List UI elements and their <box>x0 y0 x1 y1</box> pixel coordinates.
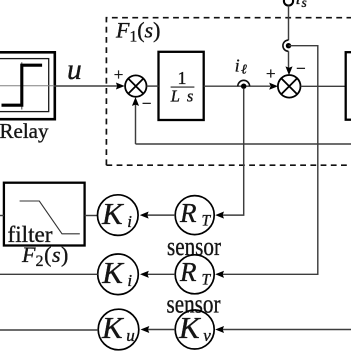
wire left stub into filter <box>0 215 4 217</box>
svg-text:+: + <box>266 64 276 83</box>
wire Ku to left edge <box>0 329 98 331</box>
arrowhead into summer S2 <box>269 83 278 90</box>
terminal i_s <box>284 0 293 6</box>
filter block <box>4 183 85 246</box>
relay block outer border <box>0 52 55 119</box>
wire Ki2 to left edge <box>0 273 98 275</box>
svg-text:L s: L s <box>170 87 194 106</box>
relay axis line <box>0 85 54 87</box>
gain Kv row3 <box>175 310 214 349</box>
wire u <box>54 85 118 87</box>
node i_l hop arc <box>238 80 250 86</box>
right partial block <box>346 52 351 120</box>
arrowhead into S1 bottom <box>132 97 139 106</box>
node i_s hop arc <box>283 40 289 51</box>
relay block inner border <box>0 59 49 112</box>
wire i_s down <box>288 6 290 41</box>
block 1/(Ls) <box>159 52 204 120</box>
svg-text:is: is <box>296 0 307 10</box>
svg-text:Ki: Ki <box>101 196 132 231</box>
arrowhead into RT2 <box>215 271 224 278</box>
svg-text:−: − <box>142 94 152 113</box>
arrowhead into Kv <box>215 326 224 333</box>
svg-text:iℓ: iℓ <box>235 56 247 77</box>
relay step curve <box>2 65 43 105</box>
wire block to S2 <box>204 85 270 87</box>
node i_s junction dot <box>286 43 291 48</box>
svg-text:RT: RT <box>179 198 212 230</box>
sensor RT row1 <box>175 196 214 235</box>
feedback wire vertical up to S1 <box>135 104 137 144</box>
arrowhead into RT1 <box>215 212 224 219</box>
arrowhead into S2 top <box>285 66 292 75</box>
gain Ki row1 <box>98 195 139 236</box>
wire i_l down to RT1 <box>223 89 244 215</box>
svg-text:RT: RT <box>179 257 212 289</box>
wire RT1 to Ki1 <box>147 214 176 216</box>
dashed box F1(s) <box>106 18 351 166</box>
summing junction S2 <box>278 75 301 98</box>
gain Ku row3 <box>98 309 139 350</box>
arrowhead into Ku <box>141 326 150 333</box>
wire RT2 to Ki2 <box>147 273 176 275</box>
wire from right edge into Kv <box>223 329 351 331</box>
wire filter to Ki1 <box>85 215 98 217</box>
arrowhead into summer S1 <box>116 82 125 89</box>
svg-text:Ki: Ki <box>101 255 132 290</box>
wire S2 to right block <box>301 85 346 87</box>
arrowhead into Ki2 <box>140 271 149 278</box>
summing junction S1 <box>125 75 146 96</box>
wire S1 to block <box>147 85 159 87</box>
svg-text:+: + <box>114 65 124 84</box>
feedback wire horizontal <box>136 143 351 145</box>
svg-text:F2(s): F2(s) <box>21 242 68 270</box>
filter response curve <box>20 201 80 234</box>
svg-text:1: 1 <box>178 68 187 88</box>
svg-text:Relay: Relay <box>0 119 49 143</box>
svg-text:u: u <box>67 54 82 86</box>
svg-text:F1(s): F1(s) <box>115 18 160 46</box>
relay tick line <box>21 62 23 109</box>
arrowhead into Ki1 <box>140 212 149 219</box>
wire Kv to Ku <box>147 329 175 331</box>
sensor RT row2 <box>175 255 214 294</box>
gain Ki row2 <box>98 254 139 295</box>
svg-text:−: − <box>296 59 306 78</box>
wire i_s into S2 top <box>288 51 290 68</box>
svg-text:Ku: Ku <box>101 310 135 345</box>
node i_l junction dot <box>241 84 246 89</box>
wire branch from i_s dot to right and down to RT2 <box>223 46 318 275</box>
